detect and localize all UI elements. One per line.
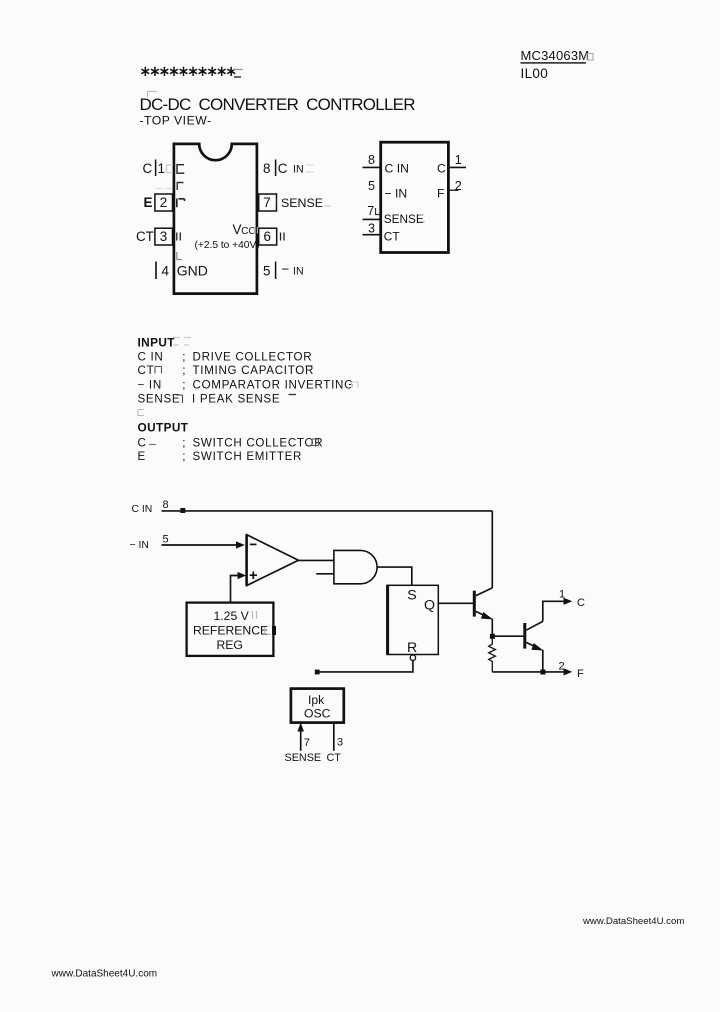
pin 1 lead tick xyxy=(155,160,157,177)
AND gate lower input stub xyxy=(316,573,334,575)
svg-text:3: 3 xyxy=(337,736,343,748)
transistor Q1 emitter xyxy=(476,611,491,618)
junction on C IN wire xyxy=(180,508,185,513)
artifact box after part number xyxy=(587,54,593,61)
svg-text:8: 8 xyxy=(368,153,375,167)
pin 4 lead tick xyxy=(155,262,157,280)
AND gate xyxy=(334,550,377,583)
block pin 3 lead xyxy=(363,234,381,236)
arrowhead into comparator minus input xyxy=(236,541,245,548)
pin 8 lead tick xyxy=(275,160,277,177)
flip-flop thick left edge xyxy=(386,585,389,655)
comparator plus symbol xyxy=(250,572,257,580)
block pin 1 lead xyxy=(448,166,466,168)
wire C IN horizontal xyxy=(162,510,493,512)
svg-text:C IN: C IN xyxy=(385,162,409,176)
arrowhead pin 1 xyxy=(564,598,573,605)
svg-text:COMPARATOR INVERTING: COMPARATOR INVERTING xyxy=(193,379,354,392)
svg-text:C: C xyxy=(138,437,147,450)
svg-text:DC-DC CONVERTER CONTROLLER: DC-DC CONVERTER CONTROLLER xyxy=(140,95,416,114)
transistor Q2 collector xyxy=(526,621,543,630)
svg-text:;: ; xyxy=(182,379,185,392)
svg-text:www.DataSheet4U.com: www.DataSheet4U.com xyxy=(582,916,684,927)
svg-text:C: C xyxy=(437,162,446,176)
pin 6 Vcc artifacts xyxy=(255,227,258,234)
svg-text:SENSE: SENSE xyxy=(138,393,181,406)
svg-text:2: 2 xyxy=(559,661,565,673)
svg-text:TIMING CAPACITOR: TIMING CAPACITOR xyxy=(193,364,315,377)
svg-text:CT: CT xyxy=(136,229,154,244)
svg-text:C IN: C IN xyxy=(132,504,153,515)
pin 3 box xyxy=(155,228,173,245)
svg-text:OSC: OSC xyxy=(304,707,331,721)
pin 2 artifacts xyxy=(177,199,185,208)
R wire end junction xyxy=(315,670,320,675)
svg-text:C: C xyxy=(278,161,288,176)
svg-text:I PEAK SENSE: I PEAK SENSE xyxy=(192,393,280,406)
resistor R1 xyxy=(489,636,496,672)
wire - IN into comparator xyxy=(162,544,237,546)
comparator minus symbol xyxy=(250,543,257,545)
wire reference to plus input xyxy=(231,576,239,604)
INPUT heading artifacts xyxy=(173,338,191,346)
svg-text:7: 7 xyxy=(367,204,374,218)
pin 7 box xyxy=(259,194,277,211)
wire R input xyxy=(317,660,413,672)
svg-text:SWITCH EMITTER: SWITCH EMITTER xyxy=(193,450,303,463)
wire Q1 emitter down xyxy=(491,619,493,637)
svg-text:;: ; xyxy=(182,364,185,377)
artifact corner above title xyxy=(148,92,158,98)
svg-text:SENSE: SENSE xyxy=(285,752,322,764)
pin 5 lead tick xyxy=(275,262,277,280)
wire AND output to flip-flop S input xyxy=(377,567,412,585)
svg-text:1: 1 xyxy=(455,153,462,167)
transistor Q1 base bar xyxy=(473,591,476,617)
part number underline xyxy=(521,62,587,63)
pin 8 artifacts xyxy=(306,165,314,172)
svg-text:1: 1 xyxy=(559,589,565,601)
svg-text:;: ; xyxy=(182,437,185,450)
artifact row xyxy=(138,410,144,416)
pin 7 artifacts xyxy=(278,198,332,207)
op-amp comparator xyxy=(247,535,299,586)
pin 2 box xyxy=(155,194,173,211)
svg-text:C IN: C IN xyxy=(138,351,164,364)
arrowhead into oscillator xyxy=(297,723,304,732)
svg-text:CT: CT xyxy=(384,230,400,244)
block pin 8 lead xyxy=(363,166,381,168)
wire sense pin 7 xyxy=(300,723,302,751)
svg-text:(+2.5 to +40V): (+2.5 to +40V) xyxy=(195,240,260,251)
header asterisks xyxy=(141,67,235,76)
wire comparator output to AND gate xyxy=(298,559,334,561)
reference regulator box xyxy=(187,603,274,656)
svg-text:OUTPUT: OUTPUT xyxy=(138,421,189,435)
svg-text:2: 2 xyxy=(455,179,462,193)
transistor Q2 emitter xyxy=(526,642,541,649)
svg-text:−: − xyxy=(282,262,290,277)
svg-text:C: C xyxy=(577,597,585,609)
svg-text:3: 3 xyxy=(160,229,167,244)
svg-text:1.25 V: 1.25 V xyxy=(214,609,250,623)
svg-text:Q: Q xyxy=(424,598,435,614)
oscillator box xyxy=(291,689,344,723)
svg-text:R: R xyxy=(407,640,417,656)
svg-text:F: F xyxy=(437,187,444,201)
svg-text:SWITCH COLLECTOR: SWITCH COLLECTOR xyxy=(193,437,324,450)
svg-text:;: ; xyxy=(182,351,185,364)
svg-text:V: V xyxy=(233,222,242,237)
svg-text:1: 1 xyxy=(158,161,165,176)
svg-text:8: 8 xyxy=(263,161,270,176)
junction Q1 emitter node xyxy=(490,634,495,639)
svg-text:8: 8 xyxy=(163,499,169,511)
transistor Q2 base bar xyxy=(523,623,526,649)
svg-text:;: ; xyxy=(182,450,185,463)
svg-text:IN: IN xyxy=(293,164,304,176)
svg-text:GND: GND xyxy=(177,263,208,279)
Q2 emitter arrowhead xyxy=(531,643,543,651)
wire C IN vertical down to Q1 collector xyxy=(491,511,493,588)
svg-text:INPUT: INPUT xyxy=(138,336,176,350)
bottom rail wire to pin 2 xyxy=(492,671,566,673)
inter-row artifacts row1-2 xyxy=(156,183,184,191)
svg-text:Ipk: Ipk xyxy=(308,693,325,707)
svg-text:CT: CT xyxy=(327,752,342,764)
svg-text:www.DataSheet4U.com: www.DataSheet4U.com xyxy=(51,969,158,980)
block pin 2 lead stub xyxy=(448,189,458,191)
svg-text:5: 5 xyxy=(368,179,375,193)
svg-text:DRIVE COLLECTOR: DRIVE COLLECTOR xyxy=(193,351,313,364)
Q1 emitter arrowhead xyxy=(481,612,493,620)
pinout block outline xyxy=(381,142,449,252)
svg-text:− IN: − IN xyxy=(138,379,162,392)
reference edge blob artifact xyxy=(272,626,276,635)
svg-text:F: F xyxy=(577,668,584,680)
svg-text:SENSE: SENSE xyxy=(281,196,323,210)
svg-text:IN: IN xyxy=(293,266,304,278)
svg-text:5: 5 xyxy=(163,534,169,546)
block pin 7 lead xyxy=(363,218,381,220)
svg-text:REG: REG xyxy=(217,638,243,652)
wire Q2 emitter down to rail xyxy=(542,650,544,672)
pin 1 artifacts xyxy=(167,165,185,174)
block pin 7 artifact xyxy=(376,208,381,215)
svg-text:CT: CT xyxy=(138,364,155,377)
arrowhead pin 2 xyxy=(564,668,573,675)
svg-text:7: 7 xyxy=(263,195,270,210)
svg-text:7: 7 xyxy=(304,737,310,749)
arrowhead into comparator plus input xyxy=(238,572,247,579)
pin 3 artifacts xyxy=(177,233,181,241)
svg-text:SENSE: SENSE xyxy=(384,212,424,226)
svg-text:C: C xyxy=(143,161,153,176)
svg-text:REFERENCE: REFERENCE xyxy=(193,624,268,638)
svg-text:MC34063M: MC34063M xyxy=(521,48,590,63)
IC package outline (DIP-8 top view) xyxy=(174,144,257,294)
svg-text:E: E xyxy=(144,195,153,210)
transistor Q1 collector xyxy=(476,588,493,596)
svg-text:E: E xyxy=(138,450,146,463)
svg-text:3: 3 xyxy=(368,222,375,236)
svg-text:-TOP VIEW-: -TOP VIEW- xyxy=(140,114,212,128)
svg-text:CC: CC xyxy=(241,226,255,237)
reference 1.25V artifacts xyxy=(253,611,257,619)
artifact between pin3 and pin4 xyxy=(177,252,182,260)
svg-text:S: S xyxy=(407,588,416,604)
wire Q output to Q1 base xyxy=(438,602,473,604)
svg-text:2: 2 xyxy=(160,195,167,210)
wire node to Q2 base xyxy=(492,635,523,637)
svg-text:IL00: IL00 xyxy=(521,66,549,81)
svg-text:4: 4 xyxy=(162,264,170,279)
wire Q2 collector up to pin 1 xyxy=(543,601,566,621)
wire CT pin 3 xyxy=(333,723,335,751)
svg-text:− IN: − IN xyxy=(385,187,408,201)
flip-flop R bubble xyxy=(410,655,415,660)
junction Q2 emitter on rail xyxy=(540,670,545,675)
svg-text:5: 5 xyxy=(263,264,270,279)
pin 6 box xyxy=(259,228,277,245)
artifact marks after asterisks xyxy=(233,70,243,78)
svg-text:− IN: − IN xyxy=(130,540,149,551)
pin 6 artifacts xyxy=(281,233,285,241)
reference label artifact xyxy=(265,627,272,634)
block pin 7 label artifact xyxy=(419,215,425,222)
flip-flop latch box xyxy=(387,585,438,654)
svg-text:6: 6 xyxy=(264,229,271,244)
